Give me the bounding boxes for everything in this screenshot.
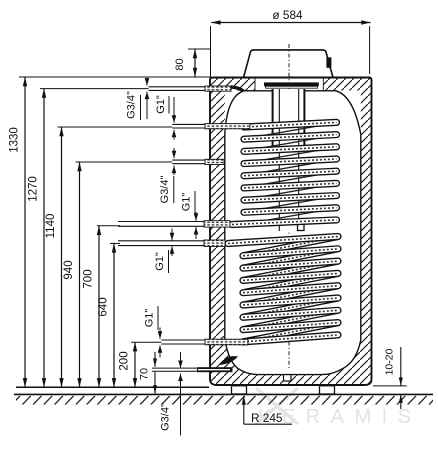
stub G1 coil return (200) xyxy=(161,339,248,345)
svg-text:G3/4": G3/4" xyxy=(159,176,171,204)
svg-text:80: 80 xyxy=(174,58,186,70)
label G3/4" xyxy=(126,91,141,120)
svg-text:G1": G1" xyxy=(155,95,167,114)
svg-text:G1": G1" xyxy=(154,252,166,271)
flange recess xyxy=(255,78,323,91)
svg-text:1270: 1270 xyxy=(28,176,40,202)
manhole flange xyxy=(264,82,319,86)
datum baseline xyxy=(16,386,209,388)
tank interior xyxy=(225,91,361,375)
drain nub xyxy=(284,375,292,381)
svg-text:1330: 1330 xyxy=(9,127,21,153)
label G3/4" xyxy=(160,403,172,431)
center line xyxy=(288,44,290,368)
pair stubD G3/4 leader xyxy=(178,352,183,436)
dimension 700 xyxy=(83,226,121,387)
insulation hatch xyxy=(211,79,371,385)
pair stubA xyxy=(194,212,199,239)
svg-text:10-20: 10-20 xyxy=(383,348,395,375)
dimension 10-20 xyxy=(373,347,407,409)
dimension 200 xyxy=(119,342,162,387)
stub G1 (700) xyxy=(118,221,230,227)
inner tube xyxy=(280,91,298,231)
svg-text:G3/4": G3/4" xyxy=(160,403,172,431)
pair stub1 xyxy=(145,78,150,119)
tank walls xyxy=(224,135,226,341)
tank dome xyxy=(225,91,361,135)
dimension 640 xyxy=(98,243,121,387)
label G1" xyxy=(154,250,169,273)
dimension dia 584 xyxy=(211,8,371,77)
stub G3/4 sensor (940) xyxy=(172,159,224,164)
svg-text:G1": G1" xyxy=(144,309,156,328)
svg-text:70: 70 xyxy=(139,368,151,380)
coil upper xyxy=(232,122,337,224)
svg-text:700: 700 xyxy=(83,269,95,288)
stub G1 (640) xyxy=(118,240,225,246)
label G1" xyxy=(144,306,159,330)
label G1" xyxy=(155,95,169,114)
svg-text:940: 940 xyxy=(63,260,75,279)
pair stub3 xyxy=(172,148,177,175)
dimension 80 cap height xyxy=(174,49,211,77)
stub1 elbow xyxy=(231,87,244,91)
tube end cap xyxy=(298,223,305,231)
dimension 1270 xyxy=(28,89,149,388)
dimension R 245 xyxy=(242,396,292,425)
svg-text:G1": G1" xyxy=(181,193,193,212)
casing outline xyxy=(210,78,372,386)
svg-text:1140: 1140 xyxy=(45,214,57,239)
svg-text:G3/4": G3/4" xyxy=(126,91,138,119)
outer tube xyxy=(273,89,303,150)
tank dished bottom xyxy=(225,340,361,375)
stub G3/4 cold inlet (70) xyxy=(152,367,233,372)
svg-text:200: 200 xyxy=(119,351,131,370)
ground hatch xyxy=(16,396,433,405)
pair stubC xyxy=(158,328,163,358)
internal pipe hook xyxy=(220,356,239,365)
svg-text:ø 584: ø 584 xyxy=(272,8,303,22)
right foot xyxy=(320,386,335,394)
dimension 1330 xyxy=(9,77,211,387)
cap knob xyxy=(326,57,331,67)
svg-text:640: 640 xyxy=(98,297,110,316)
svg-text:R 245: R 245 xyxy=(251,411,283,425)
ground line xyxy=(14,393,433,395)
pair stub2 xyxy=(172,97,177,140)
coil lower xyxy=(228,237,338,342)
dimension 1140 xyxy=(45,127,172,387)
stub G3/4 hot outlet (1270) xyxy=(149,86,231,91)
stub G1 coil flow (1140) xyxy=(172,124,250,129)
label G3/4" xyxy=(159,176,174,204)
dimension 940 xyxy=(63,162,172,387)
watermark xyxy=(256,388,422,428)
cap cover xyxy=(244,50,334,78)
label G1" xyxy=(181,191,196,213)
left foot xyxy=(232,386,247,394)
pair stubB xyxy=(170,229,175,257)
dimension 70 xyxy=(139,352,158,394)
